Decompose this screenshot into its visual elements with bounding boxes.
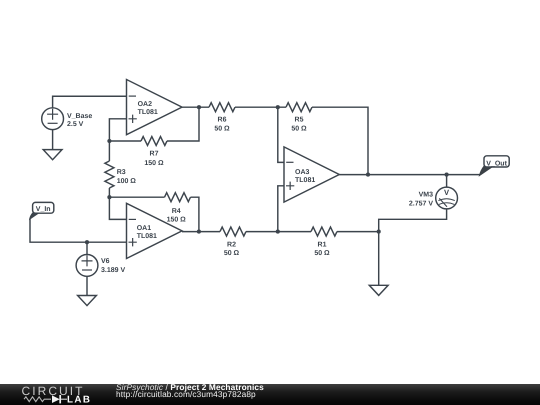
svg-text:OA2: OA2 — [138, 101, 153, 108]
svg-text:2.5 V: 2.5 V — [67, 121, 84, 128]
svg-text:LAB: LAB — [67, 394, 91, 405]
svg-text:50 Ω: 50 Ω — [214, 126, 230, 133]
svg-text:VM3: VM3 — [419, 191, 434, 198]
svg-text:150 Ω: 150 Ω — [167, 217, 187, 224]
svg-text:V6: V6 — [101, 258, 110, 265]
svg-text:V_Out: V_Out — [486, 160, 507, 167]
svg-text:2.757 V: 2.757 V — [409, 200, 433, 207]
svg-text:R3: R3 — [117, 169, 126, 176]
svg-text:R6: R6 — [218, 117, 227, 124]
svg-text:OA1: OA1 — [137, 225, 152, 232]
svg-text:TL081: TL081 — [295, 177, 315, 184]
svg-text:3.189 V: 3.189 V — [101, 267, 125, 274]
svg-text:50 Ω: 50 Ω — [291, 126, 307, 133]
svg-text:50 Ω: 50 Ω — [224, 250, 240, 257]
svg-text:V_In: V_In — [36, 206, 51, 213]
svg-text:TL081: TL081 — [137, 233, 157, 240]
svg-text:OA3: OA3 — [295, 169, 310, 176]
svg-text:100 Ω: 100 Ω — [117, 178, 137, 185]
svg-text:50 Ω: 50 Ω — [314, 250, 330, 257]
svg-text:R7: R7 — [150, 151, 159, 158]
svg-text:150 Ω: 150 Ω — [144, 160, 164, 167]
svg-text:V_Base: V_Base — [67, 113, 92, 120]
svg-text:R5: R5 — [295, 117, 304, 124]
svg-text:R1: R1 — [318, 241, 327, 248]
svg-text:R2: R2 — [227, 241, 236, 248]
svg-text:TL081: TL081 — [138, 109, 158, 116]
svg-text:R4: R4 — [172, 208, 181, 215]
